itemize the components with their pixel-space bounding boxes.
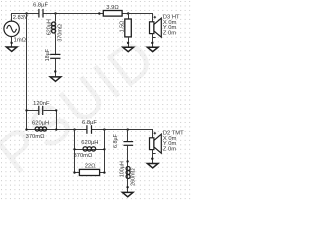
svg-text:120nF: 120nF [33,101,50,107]
svg-text:18µF: 18µF [45,48,51,61]
svg-text:260mΩ: 260mΩ [131,168,137,186]
svg-text:100µH: 100µH [119,161,125,177]
svg-text:Z 0m: Z 0m [163,30,176,36]
svg-text:620µH: 620µH [32,121,49,127]
svg-text:620µH: 620µH [81,140,98,146]
svg-text:6.8µF: 6.8µF [33,3,48,9]
svg-text:Z 0m: Z 0m [163,146,176,152]
svg-text:620µH: 620µH [47,19,53,35]
svg-text:1mΩ: 1mΩ [14,38,27,44]
svg-text:370mΩ: 370mΩ [74,153,94,159]
svg-text:22Ω: 22Ω [85,164,96,170]
svg-text:6.8µF: 6.8µF [113,133,119,148]
svg-text:370mΩ: 370mΩ [58,24,64,42]
svg-text:3.9Ω: 3.9Ω [106,5,119,11]
svg-text:6.8µF: 6.8µF [82,120,97,126]
svg-text:2.83V: 2.83V [13,15,28,21]
svg-text:370mΩ: 370mΩ [26,134,46,140]
svg-text:1.5Ω: 1.5Ω [120,21,126,33]
